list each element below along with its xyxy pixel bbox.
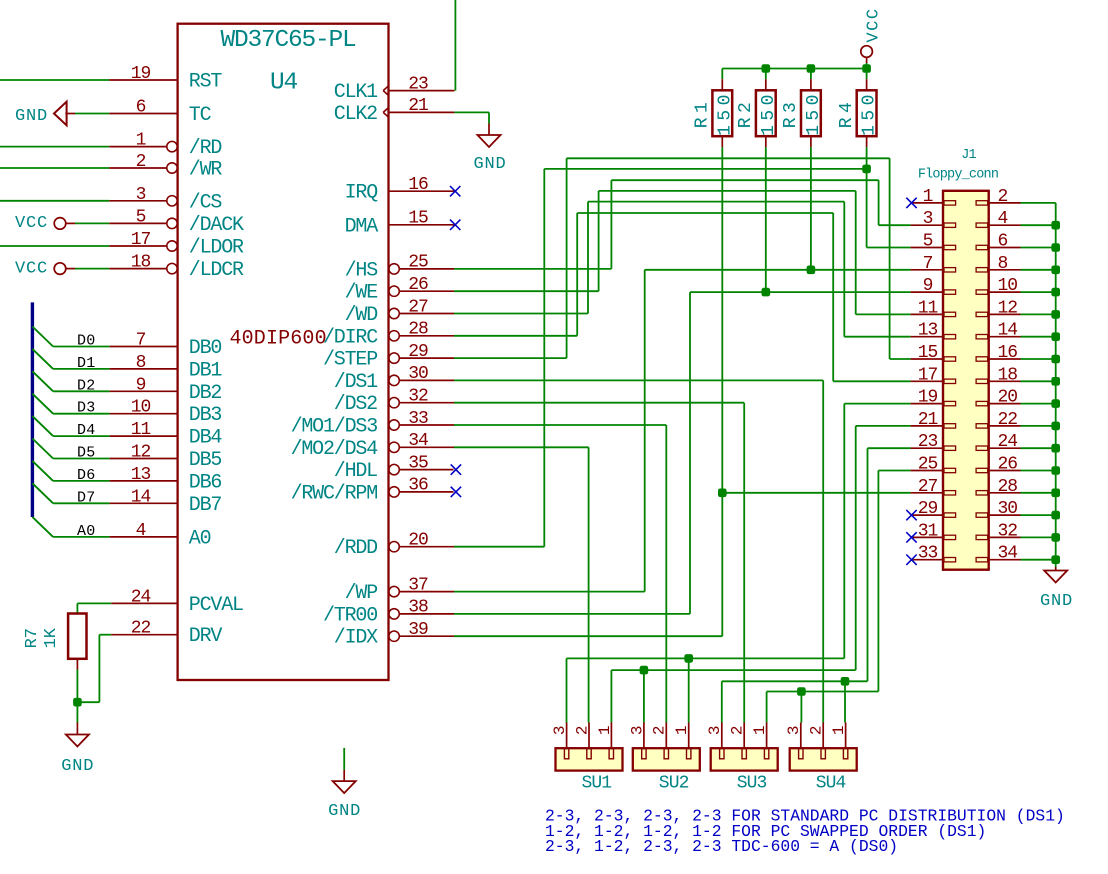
svg-text:PCVAL: PCVAL: [189, 594, 243, 617]
svg-text:GND: GND: [1040, 592, 1073, 611]
svg-text:/DS2: /DS2: [334, 393, 377, 416]
svg-text:6: 6: [136, 98, 146, 118]
svg-text:26: 26: [998, 455, 1018, 475]
svg-text:2-3, 1-2, 2-3, 2-3 TDC-600 = A: 2-3, 1-2, 2-3, 2-3 TDC-600 = A (DS0): [545, 837, 898, 856]
svg-text:3: 3: [136, 185, 146, 205]
svg-text:A0: A0: [189, 527, 211, 550]
svg-text:19: 19: [131, 64, 151, 84]
svg-text:29: 29: [408, 342, 428, 362]
svg-text:7: 7: [136, 331, 146, 351]
svg-text:/TR00: /TR00: [323, 604, 377, 627]
svg-text:SU2: SU2: [659, 773, 689, 793]
svg-text:22: 22: [131, 619, 151, 639]
svg-text:38: 38: [408, 598, 428, 618]
svg-text:/RD: /RD: [189, 137, 222, 160]
svg-text:24: 24: [998, 432, 1018, 452]
svg-text:12: 12: [131, 443, 151, 463]
svg-text:20: 20: [408, 531, 428, 551]
svg-text:U4: U4: [270, 69, 298, 96]
svg-text:8: 8: [998, 254, 1008, 274]
svg-text:11: 11: [131, 420, 151, 440]
svg-text:CLK1: CLK1: [334, 81, 378, 104]
svg-text:24: 24: [131, 587, 151, 607]
svg-text:DB2: DB2: [189, 382, 222, 405]
svg-text:31: 31: [918, 521, 938, 541]
svg-text:D7: D7: [77, 489, 96, 506]
svg-text:/MO1/DS3: /MO1/DS3: [291, 416, 378, 439]
svg-text:39: 39: [408, 620, 428, 640]
svg-text:36: 36: [408, 476, 428, 496]
svg-text:D5: D5: [77, 445, 96, 462]
svg-text:DMA: DMA: [345, 215, 379, 238]
svg-text:5: 5: [136, 207, 146, 227]
svg-text:/RWC/RPM: /RWC/RPM: [291, 482, 378, 505]
svg-text:DB1: DB1: [189, 359, 223, 382]
svg-text:VCC: VCC: [864, 7, 883, 42]
svg-text:GND: GND: [328, 802, 361, 821]
svg-text:R4: R4: [837, 98, 857, 128]
svg-text:D4: D4: [77, 422, 96, 439]
svg-text:IRQ: IRQ: [345, 182, 379, 205]
svg-text:34: 34: [998, 544, 1018, 564]
svg-text:14: 14: [998, 321, 1018, 341]
svg-text:32: 32: [998, 521, 1018, 541]
svg-text:/STEP: /STEP: [323, 349, 377, 372]
svg-text:GND: GND: [473, 155, 506, 174]
svg-text:14: 14: [131, 487, 151, 507]
svg-text:16: 16: [998, 343, 1018, 363]
svg-text:D6: D6: [77, 467, 96, 484]
svg-text:/LDCR: /LDCR: [189, 259, 244, 282]
svg-text:DB7: DB7: [189, 494, 222, 517]
svg-text:/HDL: /HDL: [334, 460, 377, 483]
svg-text:R7: R7: [23, 628, 42, 648]
svg-text:DB0: DB0: [189, 337, 222, 360]
svg-text:29: 29: [918, 499, 938, 519]
svg-text:40DIP600: 40DIP600: [230, 328, 327, 351]
svg-text:GND: GND: [15, 107, 48, 126]
svg-text:33: 33: [918, 544, 938, 564]
svg-text:28: 28: [998, 477, 1018, 497]
svg-text:22: 22: [998, 410, 1018, 430]
svg-text:150: 150: [860, 90, 880, 136]
svg-text:21: 21: [918, 410, 938, 430]
svg-text:2: 2: [998, 187, 1008, 207]
svg-text:23: 23: [408, 74, 428, 94]
svg-text:1: 1: [596, 725, 614, 735]
svg-text:/CS: /CS: [189, 191, 223, 214]
svg-text:DB6: DB6: [189, 471, 222, 494]
svg-text:30: 30: [408, 364, 428, 384]
svg-text:150: 150: [759, 90, 779, 136]
svg-text:17: 17: [131, 230, 151, 250]
svg-text:7: 7: [923, 254, 933, 274]
svg-text:/RDD: /RDD: [334, 537, 377, 560]
svg-text:CLK2: CLK2: [334, 103, 377, 126]
svg-text:Floppy_conn: Floppy_conn: [918, 167, 998, 182]
svg-text:19: 19: [918, 388, 938, 408]
svg-text:/WE: /WE: [345, 282, 378, 305]
svg-text:27: 27: [918, 477, 938, 497]
svg-text:D2: D2: [77, 377, 96, 394]
svg-text:J1: J1: [961, 148, 976, 163]
svg-text:SU4: SU4: [816, 773, 846, 793]
svg-text:/WR: /WR: [189, 159, 223, 182]
svg-text:13: 13: [131, 465, 151, 485]
svg-text:26: 26: [408, 275, 428, 295]
svg-text:18: 18: [998, 365, 1018, 385]
svg-text:25: 25: [408, 253, 428, 273]
svg-text:D3: D3: [77, 400, 96, 417]
svg-text:R1: R1: [693, 98, 713, 128]
svg-text:/WD: /WD: [345, 304, 378, 327]
svg-text:32: 32: [408, 387, 428, 407]
svg-text:23: 23: [918, 432, 938, 452]
svg-text:R3: R3: [781, 98, 801, 128]
svg-text:1: 1: [136, 131, 146, 151]
svg-text:6: 6: [998, 232, 1008, 252]
svg-text:R2: R2: [736, 98, 756, 128]
svg-text:/DIRC: /DIRC: [323, 326, 378, 349]
svg-text:17: 17: [918, 365, 938, 385]
svg-text:33: 33: [408, 409, 428, 429]
svg-text:VCC: VCC: [15, 214, 48, 233]
svg-text:/DS1: /DS1: [334, 371, 378, 394]
svg-text:GND: GND: [61, 757, 94, 776]
svg-text:27: 27: [408, 297, 428, 317]
svg-text:2: 2: [651, 725, 669, 735]
svg-text:15: 15: [408, 209, 428, 229]
svg-text:3: 3: [923, 209, 933, 229]
svg-text:150: 150: [715, 90, 735, 136]
svg-text:20: 20: [998, 388, 1018, 408]
svg-text:9: 9: [923, 276, 933, 296]
svg-text:8: 8: [136, 353, 146, 373]
svg-text:2: 2: [808, 725, 826, 735]
svg-text:2: 2: [136, 152, 146, 172]
svg-text:9: 9: [136, 375, 146, 395]
svg-text:1K: 1K: [42, 627, 61, 648]
svg-text:18: 18: [131, 253, 151, 273]
svg-text:1: 1: [923, 187, 933, 207]
svg-text:1: 1: [830, 725, 848, 735]
svg-text:2: 2: [573, 725, 591, 735]
svg-text:WD37C65-PL: WD37C65-PL: [220, 27, 356, 54]
svg-text:3: 3: [628, 725, 646, 735]
svg-text:12: 12: [998, 298, 1018, 318]
svg-text:2: 2: [729, 725, 747, 735]
svg-text:/WP: /WP: [345, 582, 378, 605]
svg-text:21: 21: [408, 96, 428, 116]
svg-text:RST: RST: [189, 71, 223, 94]
svg-text:35: 35: [408, 453, 428, 473]
svg-text:16: 16: [408, 175, 428, 195]
svg-text:3: 3: [706, 725, 724, 735]
svg-text:DB4: DB4: [189, 427, 222, 450]
svg-text:3: 3: [551, 725, 569, 735]
svg-text:10: 10: [998, 276, 1018, 296]
svg-text:TC: TC: [189, 104, 212, 127]
svg-text:4: 4: [998, 209, 1008, 229]
svg-text:15: 15: [918, 343, 938, 363]
svg-text:4: 4: [136, 521, 146, 541]
svg-text:SU1: SU1: [582, 773, 612, 793]
svg-text:D1: D1: [77, 355, 96, 372]
svg-text:DRV: DRV: [189, 625, 223, 648]
svg-text:/HS: /HS: [345, 259, 379, 282]
svg-text:DB3: DB3: [189, 404, 222, 427]
svg-text:/MO2/DS4: /MO2/DS4: [291, 438, 378, 461]
svg-text:13: 13: [918, 321, 938, 341]
svg-text:37: 37: [408, 575, 428, 595]
svg-text:1: 1: [673, 725, 691, 735]
svg-text:5: 5: [923, 232, 933, 252]
svg-text:VCC: VCC: [15, 259, 48, 278]
svg-text:10: 10: [131, 398, 151, 418]
svg-text:1: 1: [751, 725, 769, 735]
svg-text:/IDX: /IDX: [334, 627, 378, 650]
svg-text:150: 150: [804, 90, 824, 136]
svg-text:30: 30: [998, 499, 1018, 519]
svg-text:DB5: DB5: [189, 449, 222, 472]
svg-text:SU3: SU3: [737, 773, 767, 793]
svg-text:11: 11: [918, 298, 938, 318]
svg-text:/LDOR: /LDOR: [189, 237, 244, 260]
svg-text:34: 34: [408, 431, 428, 451]
svg-text:D0: D0: [77, 333, 96, 350]
svg-text:25: 25: [918, 455, 938, 475]
svg-text:A0: A0: [77, 523, 96, 540]
svg-text:3: 3: [785, 725, 803, 735]
svg-text:28: 28: [408, 320, 428, 340]
svg-text:/DACK: /DACK: [189, 214, 244, 237]
